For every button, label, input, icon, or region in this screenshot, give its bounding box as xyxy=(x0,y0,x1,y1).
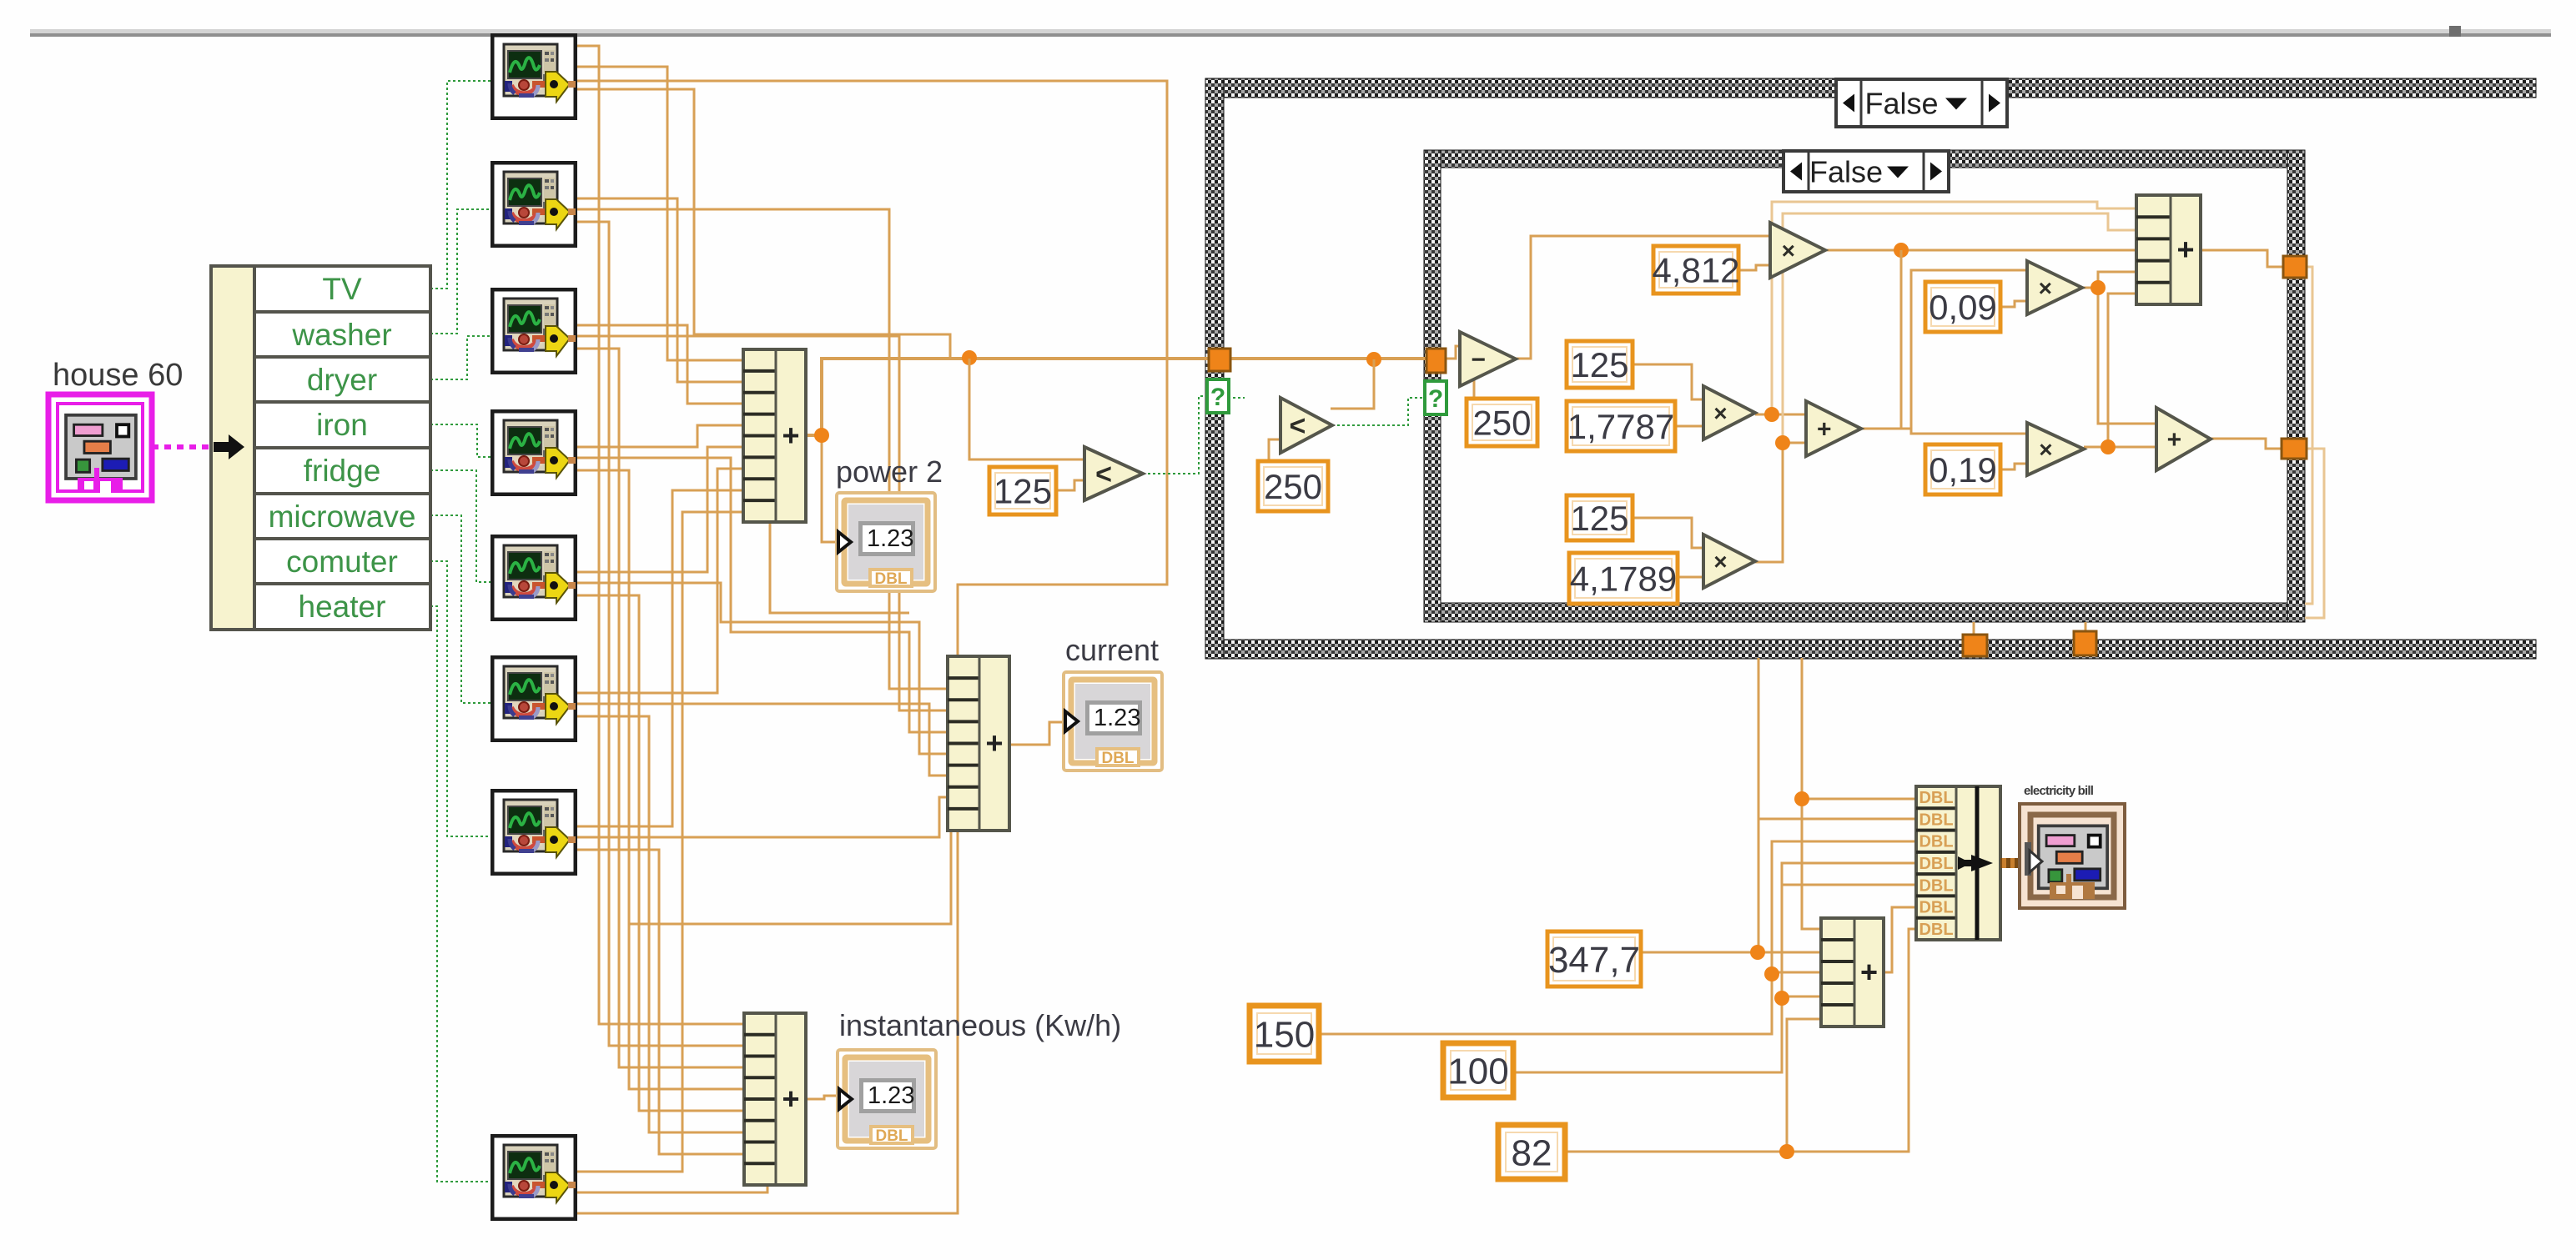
wire chart 2 to power add input 2 xyxy=(577,198,743,382)
svg-text:DBL: DBL xyxy=(1919,789,1953,807)
wire multiply 3 to compound add cell 2 xyxy=(1783,213,2136,443)
indicator current xyxy=(1064,672,1162,771)
svg-text:347,7: 347,7 xyxy=(1548,940,1640,981)
wire chart 1 to current add xyxy=(577,81,1167,656)
case bottom tunnel B xyxy=(2074,631,2096,655)
multiply 2 xyxy=(1703,386,1755,439)
wire chart 3 to current add xyxy=(577,336,948,710)
junction 0,19 output xyxy=(2101,439,2116,454)
svg-text:DBL: DBL xyxy=(1101,750,1134,767)
wire bottom add output to bundle cell 6 xyxy=(1884,907,1916,972)
numeric constant 347,7 xyxy=(1547,931,1641,986)
svg-text:×: × xyxy=(1713,549,1727,575)
junction 347,7 xyxy=(1750,945,1765,960)
wire power add output to case tunnel xyxy=(806,359,1209,435)
svg-text:power 2: power 2 xyxy=(836,454,943,489)
svg-text:−: − xyxy=(1471,346,1486,374)
svg-text:DBL: DBL xyxy=(1919,921,1953,939)
outer case selector False xyxy=(1836,79,2007,127)
svg-text:<: < xyxy=(1290,410,1306,442)
svg-text:+: + xyxy=(782,1082,799,1116)
svg-text:DBL: DBL xyxy=(1919,876,1953,895)
svg-text:250: 250 xyxy=(1264,467,1322,506)
junction bundle cell 1 xyxy=(1794,791,1809,806)
svg-text:DBL: DBL xyxy=(1919,899,1953,917)
wire comuter to chart 7 xyxy=(430,561,491,836)
wire tunnel 2 wrap xyxy=(2305,449,2324,618)
svg-text:?: ? xyxy=(1428,385,1443,413)
waveform chart 6 xyxy=(492,657,576,740)
wire to bottom add cell 4 xyxy=(1782,996,1821,998)
multiply 3 xyxy=(1703,535,1755,588)
numeric constant 100 xyxy=(1443,1043,1513,1097)
svg-text:+: + xyxy=(1817,416,1832,444)
wire house 60 to unbundle xyxy=(152,444,215,449)
wire washer to chart 2 xyxy=(430,209,491,334)
svg-text:1.23: 1.23 xyxy=(1094,705,1140,731)
numeric constant 125 xyxy=(989,467,1056,515)
inner case selector False xyxy=(1784,151,1949,192)
svg-text:house 60: house 60 xyxy=(53,358,183,393)
wire chart 4 to current add xyxy=(577,458,948,732)
wire chart 7 to power add input 7 xyxy=(577,490,743,826)
indicator power 2 xyxy=(837,493,935,591)
numeric constant 4,812 xyxy=(1652,246,1739,294)
junction 100 xyxy=(1774,991,1789,1006)
numeric constant 0,19 xyxy=(1925,444,2000,494)
wire add to multiply 0,19 xyxy=(1911,429,2027,434)
svg-text:washer: washer xyxy=(291,318,391,352)
wire chart 8 to current add xyxy=(577,831,958,1213)
numeric constant 0,09 xyxy=(1925,282,2000,332)
svg-text:125: 125 xyxy=(1570,345,1628,384)
svg-text:×: × xyxy=(1713,400,1727,426)
arrow into unbundle xyxy=(214,434,244,459)
subVI house 60 xyxy=(48,358,183,500)
wire add to multiply 0,09 xyxy=(1861,270,2027,429)
svg-text:dryer: dryer xyxy=(307,363,377,397)
wire chart 3 to power add input 3 xyxy=(577,325,743,404)
wire to power 2 indicator xyxy=(822,435,838,542)
wire 125 to multiply 3 xyxy=(1633,518,1703,548)
wire 82 to bundle cell 7 xyxy=(1565,929,1916,1152)
wire chart 5 to current add xyxy=(577,583,948,754)
wire junction down xyxy=(1900,250,1903,428)
wire dryer to chart 3 xyxy=(430,336,491,379)
multiply 0,09 xyxy=(2027,261,2082,314)
wire tunnel to inner tunnel xyxy=(1230,357,1426,360)
svg-text:+: + xyxy=(1860,955,1878,989)
inner case tunnel output 1 xyxy=(2283,256,2307,278)
junction multiply 3 output xyxy=(1775,435,1790,450)
svg-text:4,1789: 4,1789 xyxy=(1570,560,1677,599)
wire 0,09 to multiply xyxy=(2000,301,2027,307)
waveform chart 5 xyxy=(492,536,576,620)
svg-text:?: ? xyxy=(1210,384,1225,411)
wire iron to chart 4 xyxy=(430,424,491,457)
indicator instantaneous xyxy=(838,1050,936,1148)
svg-text:+: + xyxy=(985,726,1003,761)
wire to bundle cell 1 xyxy=(1802,798,1916,801)
svg-text:<: < xyxy=(1095,459,1112,490)
waveform chart 7 xyxy=(492,791,576,874)
svg-text:iron: iron xyxy=(316,408,368,442)
numeric constant 250 xyxy=(1258,461,1328,511)
svg-text:82: 82 xyxy=(1512,1132,1552,1173)
wire 100 to bundle cell 4 xyxy=(1513,863,1916,1072)
wire chart 8 to power add input 8 xyxy=(577,512,743,1172)
svg-text:150: 150 xyxy=(1254,1014,1315,1055)
wire chart 5 to instantaneous add xyxy=(577,595,744,1111)
junction 0,09 output xyxy=(2090,280,2106,295)
wire tunnel 1 wrap xyxy=(2305,267,2312,604)
junction inside case xyxy=(1366,352,1381,367)
compound add current xyxy=(948,656,1009,831)
wire 4,812 to multiply 1 xyxy=(1738,265,1770,270)
wire heater to chart 8 xyxy=(430,606,491,1182)
svg-text:False: False xyxy=(1809,154,1883,188)
svg-text:×: × xyxy=(1782,238,1795,264)
wire chart 8 to instantaneous add xyxy=(577,1185,767,1192)
bundle node xyxy=(1916,786,2000,940)
subtract xyxy=(1460,332,1516,386)
svg-text:electricity bill: electricity bill xyxy=(2024,784,2094,798)
wire less-than to case ? tunnel xyxy=(1143,396,1207,474)
wire multiply 1 to compound add cell 3 xyxy=(1825,249,2136,252)
case bottom tunnel A xyxy=(1963,635,1987,656)
wire microwave to chart 6 xyxy=(430,515,491,703)
junction multiply 1 output xyxy=(1894,243,1909,258)
wire TV to chart 1 xyxy=(430,81,491,289)
wire chart 6 to power add input 6 xyxy=(577,469,743,693)
wire to compound add cell 4 xyxy=(2098,272,2136,288)
numeric constant 150 xyxy=(1250,1006,1319,1062)
inner case selector tunnel xyxy=(1425,381,1446,414)
compound add power xyxy=(743,349,806,522)
wire compound add to tunnel 1 xyxy=(2201,250,2283,267)
svg-text:microwave: microwave xyxy=(269,499,416,534)
wire chart 1 to instantaneous add xyxy=(577,46,744,1024)
svg-text:1.23: 1.23 xyxy=(867,525,913,552)
wire case output down 1 xyxy=(1758,658,1760,952)
wire to bottom add cell 2 xyxy=(1758,951,1821,954)
svg-text:1,7787: 1,7787 xyxy=(1567,407,1674,446)
junction power output xyxy=(814,428,829,443)
svg-text:DBL: DBL xyxy=(1919,811,1953,829)
wire 0,19 to multiply xyxy=(2000,464,2027,469)
wire less-than 250 to inner ? tunnel xyxy=(1332,398,1425,425)
add mid xyxy=(1806,401,1861,456)
waveform chart 1 xyxy=(492,35,576,118)
wire to bottom add cell 3 xyxy=(1772,971,1821,974)
wire 150 to bundle cell 3 xyxy=(1319,841,1916,1034)
wire 4,1789 to multiply 3 xyxy=(1678,576,1703,579)
cluster wire bundle to subVI xyxy=(2000,858,2026,868)
wire multiply 3 to add xyxy=(1755,443,1806,562)
svg-text:+: + xyxy=(2167,426,2182,454)
wire 82 to bottom add cell 5 xyxy=(1787,1019,1821,1152)
comparison less than 125 xyxy=(1084,447,1143,500)
compound add instantaneous xyxy=(744,1013,806,1185)
final add xyxy=(2156,408,2211,470)
wire chart 6 to instantaneous add xyxy=(577,716,744,1132)
waveform chart 3 xyxy=(492,289,576,373)
wire 250 to subtract xyxy=(1462,373,1474,399)
wire chart 2 to instantaneous add xyxy=(577,222,744,1046)
wire final add to tunnel 2 xyxy=(2211,439,2282,449)
svg-text:250: 250 xyxy=(1472,404,1531,443)
wire current add output to indicator xyxy=(1009,722,1064,745)
numeric constant 125 xyxy=(1567,495,1633,540)
wire case output down 2 xyxy=(1802,658,1821,929)
wire to bundle cell 5 xyxy=(1782,884,1916,886)
svg-text:+: + xyxy=(782,419,799,453)
wire 347,7 output xyxy=(1641,951,1758,954)
inner case structure border xyxy=(1424,150,2305,168)
wire multiply 0,19 output xyxy=(2084,446,2108,449)
wire 125 to multiply 2 xyxy=(1633,364,1703,399)
svg-text:DBL: DBL xyxy=(875,1127,908,1145)
junction case feed xyxy=(962,350,977,365)
wire to final add bottom xyxy=(2108,446,2156,449)
wire subtract output to multiply 1 xyxy=(1516,236,1770,359)
svg-text:DBL: DBL xyxy=(874,570,907,588)
wire junction to less-than 250 xyxy=(1331,359,1374,409)
svg-text:DBL: DBL xyxy=(1919,855,1953,873)
wire multiply 0,09 output xyxy=(2082,287,2098,289)
junction 82 xyxy=(1779,1144,1794,1159)
svg-text:TV: TV xyxy=(322,272,362,306)
wire multiply 2 to add xyxy=(1755,414,1806,416)
svg-text:heater: heater xyxy=(299,590,386,624)
waveform chart 8 xyxy=(492,1136,576,1219)
wire to bundle cell 2 xyxy=(1758,818,1916,821)
wire chart 2 to current add xyxy=(577,209,948,689)
comparison less than 250 xyxy=(1280,398,1332,453)
wire junction to less-than xyxy=(969,359,1084,459)
wire stub to bottom tunnel B xyxy=(2085,622,2087,632)
outer case structure border xyxy=(1205,78,2536,98)
unbundle by name node xyxy=(211,266,430,630)
wire chart 1 to case structure xyxy=(577,89,950,359)
svg-text:False: False xyxy=(1864,86,1938,120)
wire chart 4 to instantaneous add xyxy=(577,470,744,1089)
svg-text:×: × xyxy=(2039,275,2052,301)
waveform chart 4 xyxy=(492,411,576,494)
subVI electricity bill xyxy=(2020,784,2125,908)
wire chart 7 to instantaneous add xyxy=(577,850,744,1154)
svg-text:0,19: 0,19 xyxy=(1929,450,1997,489)
top splitter line xyxy=(30,29,2551,33)
svg-text:DBL: DBL xyxy=(1919,833,1953,851)
waveform chart 2 xyxy=(492,163,576,246)
svg-text:fridge: fridge xyxy=(304,454,381,488)
svg-text:current: current xyxy=(1065,633,1159,667)
wire 1,7787 to multiply 2 xyxy=(1675,425,1703,428)
wire instantaneous add output to indicator xyxy=(806,1096,838,1099)
wire chart 3 to instantaneous add xyxy=(577,349,744,1067)
wire chart 5 to power add input 5 xyxy=(577,447,743,572)
wire below power add xyxy=(770,522,909,613)
numeric constant 1,7787 xyxy=(1567,401,1675,451)
wire chart 1 to power add input 1 xyxy=(577,67,743,360)
svg-text:0,09: 0,09 xyxy=(1929,288,1997,327)
wire chart 4 to power add input 4 xyxy=(577,425,743,447)
numeric constant 82 xyxy=(1498,1125,1565,1179)
svg-text:125: 125 xyxy=(994,472,1052,511)
svg-text:comuter: comuter xyxy=(286,545,398,579)
wire 125 to less-than xyxy=(1056,480,1084,490)
junction multiply 2 output xyxy=(1764,407,1779,422)
numeric constant 125 xyxy=(1567,341,1633,388)
junction 150 xyxy=(1764,966,1779,981)
wire inner tunnel to subtract xyxy=(1446,346,1460,359)
svg-text:100: 100 xyxy=(1447,1051,1508,1092)
wire stub to bottom tunnel A xyxy=(1973,622,1975,635)
wire to final add top xyxy=(2098,288,2156,424)
svg-text:+: + xyxy=(2176,233,2194,267)
multiply 0,19 xyxy=(2027,423,2084,475)
wire chart 7 to current add xyxy=(577,797,948,837)
wire multiply 2 to compound add cell 1 xyxy=(1772,202,2136,414)
numeric constant 4,1789 xyxy=(1569,553,1678,604)
svg-text:125: 125 xyxy=(1570,499,1628,538)
inner case tunnel input xyxy=(1426,349,1446,373)
svg-text:1.23: 1.23 xyxy=(868,1082,914,1109)
svg-text:instantaneous (Kw/h): instantaneous (Kw/h) xyxy=(839,1008,1121,1042)
case selector tunnel xyxy=(1207,379,1229,413)
wire below current add xyxy=(629,831,951,924)
wire chart 6 to current add xyxy=(577,704,948,776)
multiply 1 xyxy=(1770,223,1825,278)
compound add case xyxy=(2136,195,2201,304)
wire to compound add cell 5 xyxy=(2108,294,2136,447)
wire ? tunnel stub xyxy=(1228,397,1245,399)
inner case tunnel output 2 xyxy=(2282,439,2307,459)
svg-text:×: × xyxy=(2039,436,2052,462)
wire 250 to less-than xyxy=(1269,439,1280,461)
wire fridge to chart 5 xyxy=(430,470,491,582)
svg-text:4,812: 4,812 xyxy=(1652,251,1739,290)
case tunnel input xyxy=(1209,349,1230,371)
compound add bottom xyxy=(1821,918,1884,1027)
numeric constant 250 xyxy=(1467,399,1537,446)
